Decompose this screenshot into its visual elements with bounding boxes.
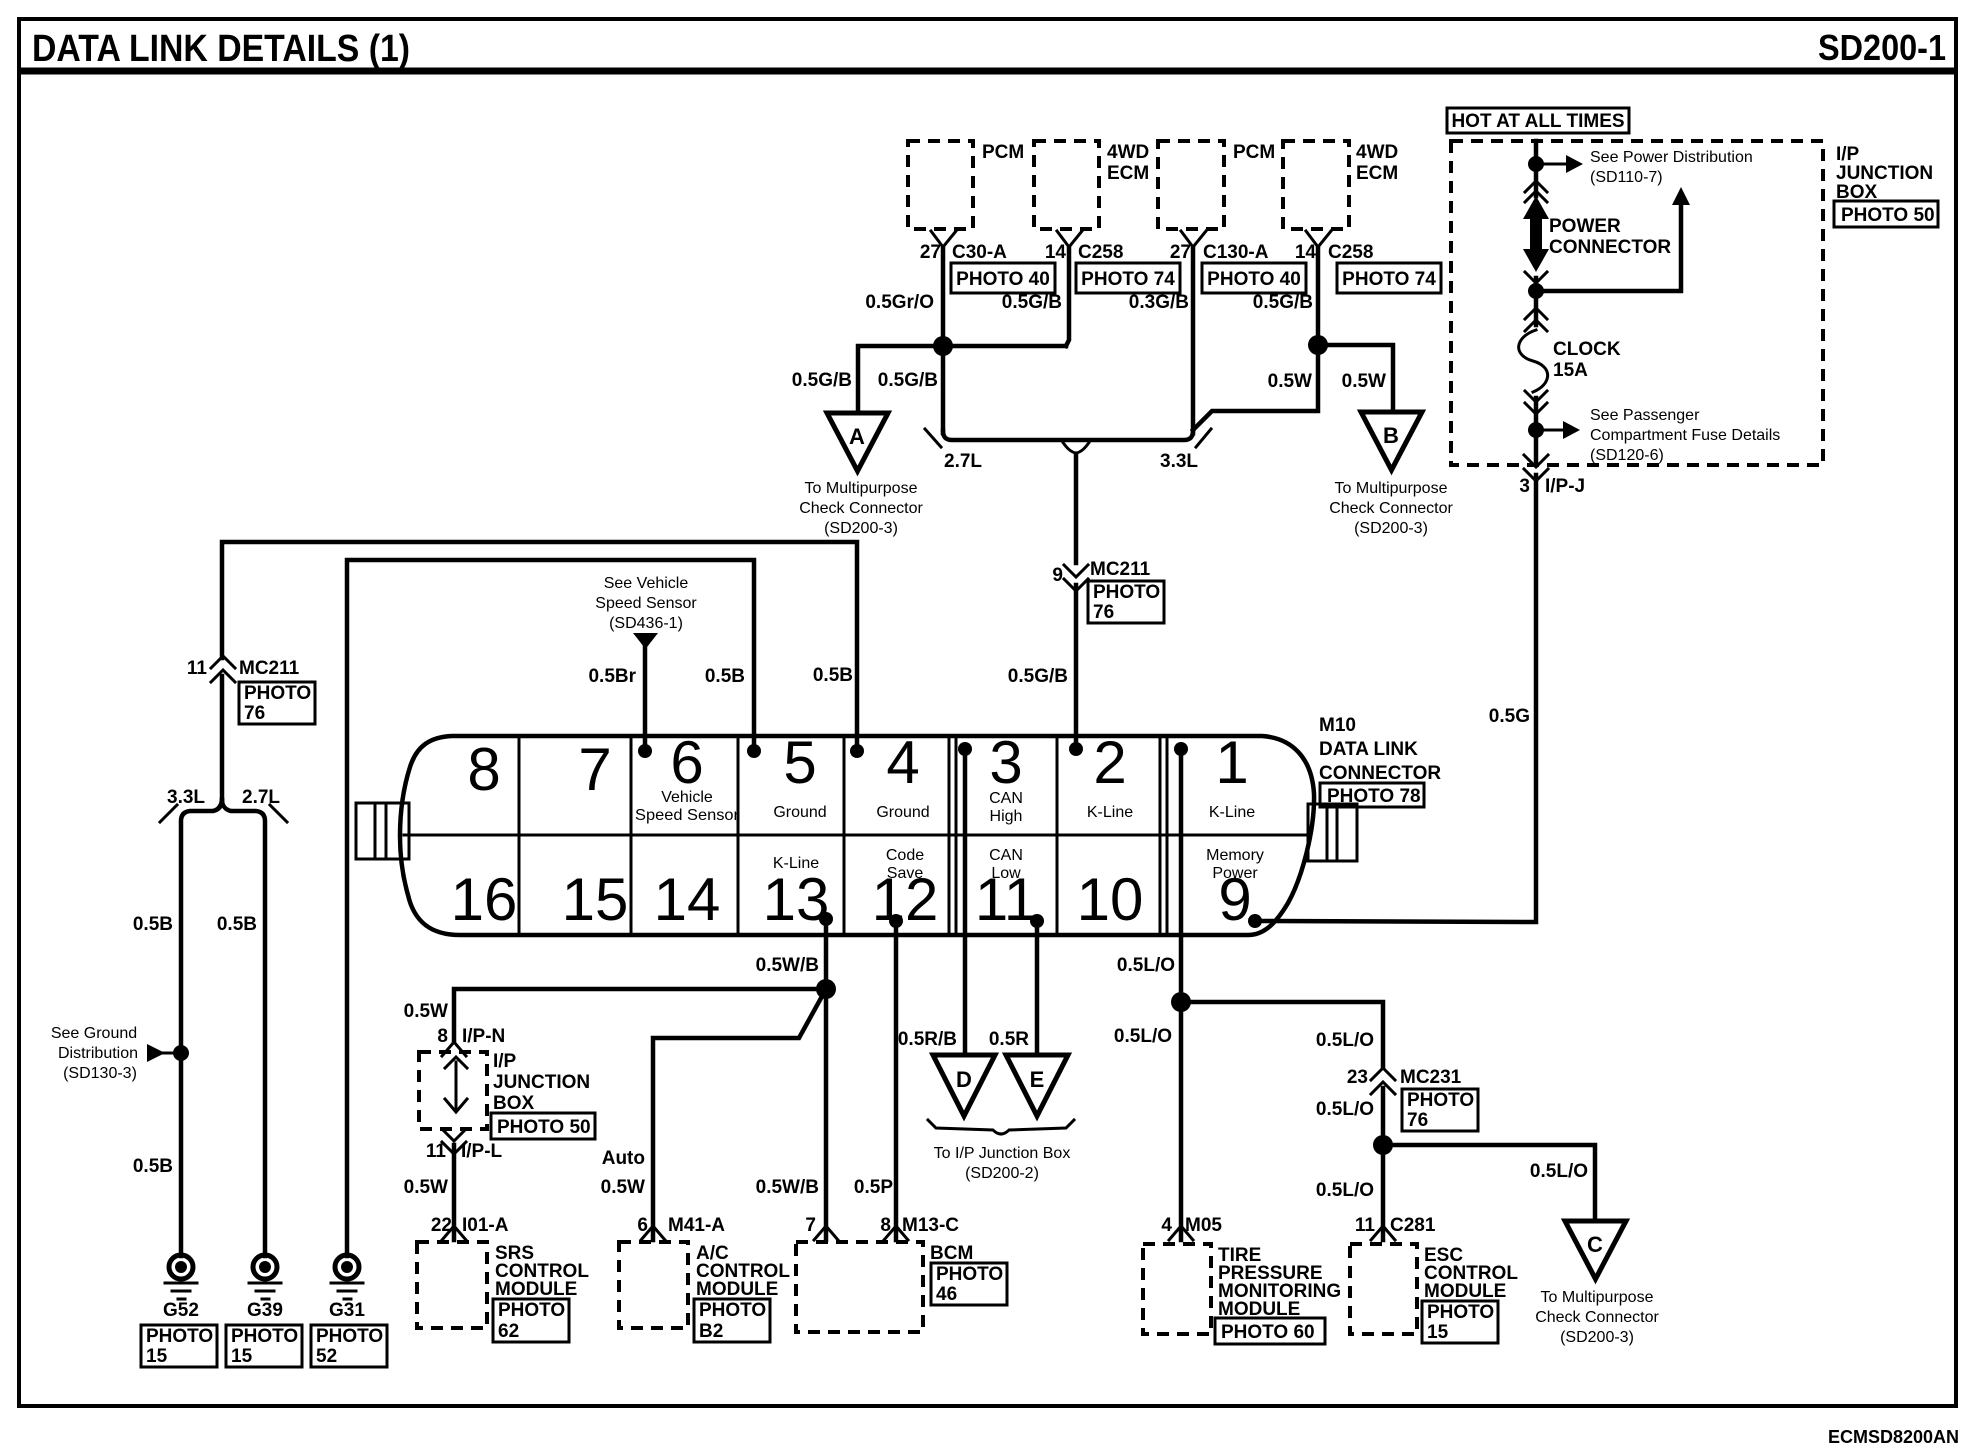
svg-text:8: 8 (437, 1026, 448, 1047)
svg-text:16: 16 (451, 866, 518, 933)
wire junction to C triangle (1383, 1145, 1595, 1221)
svg-text:4WD: 4WD (1107, 142, 1149, 163)
svg-text:0.3G/B: 0.3G/B (1129, 292, 1189, 313)
arrow down inside box (445, 1099, 467, 1112)
DLC left mounting tab (356, 803, 409, 859)
junction dot fuse feed (1528, 283, 1544, 299)
TOPMODULES (792, 141, 1454, 537)
svg-text:Vehicle: Vehicle (661, 789, 713, 806)
svg-text:46: 46 (936, 1284, 957, 1305)
svg-text:Compartment Fuse Details: Compartment Fuse Details (1590, 427, 1780, 444)
triangle C to multipurpose check connector (1565, 1221, 1626, 1279)
svg-text:(SD120-6): (SD120-6) (1590, 447, 1664, 464)
svg-text:0.5L/O: 0.5L/O (1114, 1026, 1172, 1047)
svg-text:0.5G/B: 0.5G/B (878, 370, 938, 391)
svg-text:3.3L: 3.3L (167, 787, 205, 808)
svg-text:B: B (1383, 423, 1399, 448)
svg-text:(SD110-7): (SD110-7) (1590, 169, 1663, 186)
connector C281 pin 11 fork (1371, 1226, 1395, 1240)
module tire pressure monitoring module dashed box (1143, 1244, 1211, 1334)
arrow see passenger compartment fuse details (1536, 429, 1563, 432)
pin dot 13 (819, 912, 833, 926)
junction dot power distribution (1528, 156, 1544, 172)
chevron below fuse (1525, 391, 1547, 414)
wire VSS to pin 6 (643, 647, 648, 750)
pin dot 4 (850, 744, 864, 758)
svg-text:52: 52 (316, 1346, 337, 1367)
power connector thick arrow (1523, 196, 1549, 272)
svg-text:I/P: I/P (1836, 144, 1860, 165)
wire junction to MC231 (1181, 1002, 1383, 1066)
svg-text:Speed Sensor: Speed Sensor (635, 807, 740, 824)
triangle E to I/P junction box (1006, 1055, 1068, 1116)
svg-text:0.5L/O: 0.5L/O (1530, 1161, 1588, 1182)
svg-text:11: 11 (975, 866, 1037, 933)
svg-text:6: 6 (637, 1215, 648, 1236)
module 4WD ECM (right) dashed box (1283, 141, 1349, 229)
module PCM (right) dashed box (1158, 141, 1224, 229)
fuse CLOCK 15A (1519, 330, 1548, 392)
pin dot 6 (638, 744, 652, 758)
svg-text:7: 7 (578, 736, 611, 803)
photo ref PHOTO 76 (1402, 1089, 1478, 1131)
svg-text:0.5W: 0.5W (1342, 371, 1386, 392)
triangle B to multipurpose check connector (1361, 412, 1422, 470)
wire MC231 down to junction (1381, 1088, 1386, 1240)
svg-text:I/P-N: I/P-N (462, 1026, 505, 1047)
svg-text:15: 15 (146, 1346, 168, 1367)
photo ref PHOTO B2 (694, 1299, 770, 1342)
svg-text:9: 9 (1052, 565, 1063, 586)
svg-text:PHOTO: PHOTO (146, 1326, 213, 1347)
wire junction to I/P-N (454, 989, 826, 1042)
svg-text:HOT AT ALL TIMES: HOT AT ALL TIMES (1451, 111, 1624, 132)
svg-text:G39: G39 (247, 1300, 283, 1321)
wire I/P-L to SRS (452, 1145, 457, 1240)
svg-text:See Ground: See Ground (51, 1025, 137, 1042)
arrow from speed sensor (633, 633, 658, 649)
ground G31 (335, 1255, 359, 1279)
connector fork C258 pin 14 (1057, 231, 1082, 247)
svg-text:MODULE: MODULE (495, 1279, 577, 1300)
svg-text:3: 3 (989, 729, 1022, 796)
svg-text:G31: G31 (329, 1300, 365, 1321)
connector fork pin 7 (814, 1226, 838, 1240)
svg-text:15: 15 (231, 1346, 253, 1367)
svg-text:15: 15 (562, 866, 629, 933)
svg-text:Check Connector: Check Connector (799, 500, 923, 517)
svg-text:Ground: Ground (876, 804, 929, 821)
svg-text:0.5B: 0.5B (133, 1156, 173, 1177)
svg-text:0.5Gr/O: 0.5Gr/O (865, 292, 934, 313)
connector M41-A pin 6 fork (641, 1226, 665, 1240)
photo ref PHOTO 76 (239, 682, 315, 724)
svg-text:76: 76 (1093, 602, 1114, 623)
svg-text:0.5G: 0.5G (1489, 706, 1530, 727)
svg-text:ECMSD8200AN: ECMSD8200AN (1828, 1427, 1959, 1447)
svg-text:To Multipurpose: To Multipurpose (1335, 480, 1448, 497)
photo ref PHOTO 62 (493, 1299, 569, 1342)
pin dot 2 (1069, 742, 1083, 756)
wire junction left to A drop (858, 346, 943, 413)
pin dot 9 (1248, 914, 1262, 928)
svg-text:0.5L/O: 0.5L/O (1316, 1180, 1374, 1201)
svg-text:ECM: ECM (1356, 163, 1398, 184)
svg-text:See Power Distribution: See Power Distribution (1590, 149, 1753, 166)
svg-text:CAN: CAN (989, 847, 1023, 864)
svg-text:Check Connector: Check Connector (1329, 500, 1453, 517)
title separator (19, 68, 1956, 75)
svg-text:0.5W: 0.5W (404, 1001, 448, 1022)
svg-text:14: 14 (1045, 242, 1067, 263)
svg-text:PHOTO 40: PHOTO 40 (956, 269, 1050, 290)
svg-text:(SD200-3): (SD200-3) (824, 520, 898, 537)
svg-text:PHOTO: PHOTO (1427, 1302, 1494, 1323)
svg-text:14: 14 (654, 866, 721, 933)
svg-text:E: E (1030, 1067, 1045, 1092)
svg-text:PHOTO 50: PHOTO 50 (497, 1117, 591, 1138)
svg-text:9: 9 (1218, 866, 1251, 933)
svg-text:PHOTO 78: PHOTO 78 (1327, 786, 1421, 807)
photo ref PHOTO 76 (1088, 581, 1164, 623)
svg-text:10: 10 (1077, 866, 1144, 933)
svg-text:C258: C258 (1078, 242, 1123, 263)
pin dot 5 (747, 744, 761, 758)
photo ref PHOTO 40 (951, 263, 1055, 293)
svg-text:0.5P: 0.5P (854, 1177, 893, 1198)
DLC mid divider (404, 834, 1307, 837)
svg-text:JUNCTION: JUNCTION (493, 1072, 590, 1093)
svg-text:(SD436-1): (SD436-1) (609, 615, 683, 632)
svg-text:I01-A: I01-A (462, 1215, 509, 1236)
photo ref PHOTO 15 (1422, 1301, 1498, 1343)
wire inside box (455, 1062, 458, 1110)
svg-text:Ground: Ground (773, 804, 826, 821)
wire merged K-line down to MC211 (1074, 455, 1079, 563)
junction first pair (933, 336, 953, 356)
svg-text:3: 3 (1519, 476, 1530, 497)
svg-text:POWER: POWER (1549, 216, 1621, 237)
BOTTOM (404, 749, 1660, 1346)
svg-text:K-Line: K-Line (1087, 804, 1133, 821)
svg-text:M05: M05 (1185, 1215, 1222, 1236)
svg-text:BCM: BCM (930, 1243, 973, 1264)
svg-text:CAN: CAN (989, 790, 1023, 807)
wire junction down-left to merge (1193, 345, 1318, 430)
junction second pair (1308, 335, 1328, 355)
svg-text:11: 11 (1355, 1215, 1376, 1236)
wire MC211 down to split (220, 676, 225, 800)
merge tick right (1196, 429, 1211, 447)
svg-text:76: 76 (244, 703, 265, 724)
connector M05 pin 4 fork (1169, 1226, 1193, 1240)
svg-text:14: 14 (1295, 242, 1317, 263)
svg-text:0.5W: 0.5W (601, 1177, 645, 1198)
svg-text:0.5R/B: 0.5R/B (898, 1029, 957, 1050)
svg-text:Memory: Memory (1206, 847, 1264, 864)
svg-text:Distribution: Distribution (58, 1045, 138, 1062)
MIDDLE (222, 455, 1164, 1256)
svg-text:PHOTO: PHOTO (1093, 582, 1160, 603)
svg-text:4: 4 (1161, 1215, 1172, 1236)
ground bus 2: pin 5 to G31 drop (347, 560, 754, 1256)
photo ref PHOTO 78 (1320, 783, 1424, 807)
svg-text:0.5W: 0.5W (404, 1177, 448, 1198)
svg-text:15: 15 (1427, 1322, 1449, 1343)
connector fork C130-A pin 27 (1181, 231, 1206, 247)
svg-text:0.5B: 0.5B (813, 665, 853, 686)
svg-text:MC231: MC231 (1400, 1067, 1462, 1088)
svg-text:C258: C258 (1328, 242, 1373, 263)
svg-text:PHOTO: PHOTO (498, 1300, 565, 1321)
svg-text:PHOTO: PHOTO (244, 683, 311, 704)
svg-text:C: C (1587, 1232, 1603, 1257)
svg-text:Speed Sensor: Speed Sensor (595, 595, 697, 612)
brace under D and E (928, 1120, 1074, 1134)
connector M10 data link connector outline (400, 736, 1314, 935)
HOT AT ALL TIMES banner (1447, 108, 1629, 133)
ground G52 (169, 1255, 193, 1279)
connector M13-C pin 8 fork (884, 1226, 908, 1240)
svg-text:11: 11 (187, 658, 208, 679)
junction dot fuse details (1528, 422, 1544, 438)
svg-text:2.7L: 2.7L (242, 787, 280, 808)
photo ref PHOTO 60 (1215, 1318, 1325, 1344)
junction dot ESC branch (1373, 1135, 1393, 1155)
junction dot K-line split (816, 979, 836, 999)
svg-text:C281: C281 (1390, 1215, 1436, 1236)
wire C258 14 down (1066, 247, 1069, 346)
svg-text:CONNECTOR: CONNECTOR (1549, 237, 1671, 258)
svg-text:CLOCK: CLOCK (1553, 339, 1621, 360)
module SRS control module dashed box (417, 1242, 487, 1328)
svg-text:6: 6 (670, 729, 703, 796)
wire junction to up arrow (1536, 205, 1681, 291)
svg-text:MODULE: MODULE (1424, 1281, 1506, 1302)
svg-text:To Multipurpose: To Multipurpose (805, 480, 918, 497)
svg-text:Code: Code (886, 847, 924, 864)
svg-text:0.5Br: 0.5Br (588, 666, 636, 687)
svg-text:MC211: MC211 (239, 658, 300, 679)
connector I/P-L pin 11 (442, 1129, 466, 1154)
svg-text:15A: 15A (1553, 360, 1588, 381)
chevron above fuse (1525, 308, 1547, 331)
ground bus 1: pin 4 to MC211 (11) (222, 542, 857, 750)
wire CAN High pin 3 to D (963, 749, 968, 1055)
svg-text:0.5L/O: 0.5L/O (1117, 955, 1175, 976)
svg-text:76: 76 (1407, 1110, 1428, 1131)
svg-text:ECM: ECM (1107, 163, 1149, 184)
connector I/P-N pin 8 (442, 1042, 466, 1056)
svg-text:11: 11 (426, 1141, 447, 1162)
svg-text:To Multipurpose: To Multipurpose (1541, 1289, 1654, 1306)
svg-text:See Vehicle: See Vehicle (604, 575, 689, 592)
svg-text:PHOTO 40: PHOTO 40 (1207, 269, 1301, 290)
svg-text:(SD200-3): (SD200-3) (1354, 520, 1428, 537)
svg-text:0.5L/O: 0.5L/O (1316, 1030, 1374, 1051)
svg-text:PHOTO: PHOTO (936, 1264, 1003, 1285)
I/P junction box (lower) dashed outline (419, 1052, 487, 1129)
svg-text:PHOTO 74: PHOTO 74 (1342, 269, 1436, 290)
svg-text:M41-A: M41-A (668, 1215, 725, 1236)
svg-text:8: 8 (467, 736, 500, 803)
svg-text:0.5W: 0.5W (1268, 371, 1312, 392)
svg-text:4WD: 4WD (1356, 142, 1398, 163)
photo ref PHOTO 74 (1337, 263, 1441, 293)
arrow see power distribution (1536, 163, 1566, 166)
svg-text:I/P: I/P (493, 1051, 517, 1072)
svg-text:BOX: BOX (493, 1093, 535, 1114)
wire MC211 to DLC pin 2 (1074, 585, 1079, 750)
ground G39 (253, 1255, 277, 1279)
svg-text:62: 62 (498, 1321, 519, 1342)
photo ref PHOTO 50 (1834, 201, 1938, 227)
svg-text:See Passenger: See Passenger (1590, 407, 1700, 424)
svg-text:(SD200-2): (SD200-2) (965, 1165, 1039, 1182)
svg-text:I/P-L: I/P-L (461, 1141, 503, 1162)
module PCM (left) dashed box (908, 141, 973, 229)
svg-text:(SD200-3): (SD200-3) (1560, 1329, 1634, 1346)
svg-text:PHOTO 60: PHOTO 60 (1221, 1322, 1315, 1343)
svg-text:0.5W/B: 0.5W/B (756, 1177, 819, 1198)
svg-text:PHOTO 74: PHOTO 74 (1081, 269, 1175, 290)
module A/C control module dashed box (619, 1242, 688, 1328)
svg-text:High: High (990, 808, 1023, 825)
DLC cell dividers (519, 736, 1167, 935)
wire merge bar 2.7L/3.3L (943, 431, 1193, 440)
module ESC control module dashed box (1350, 1244, 1417, 1334)
DLC (356, 715, 1441, 935)
svg-text:0.5B: 0.5B (705, 666, 745, 687)
svg-text:13: 13 (763, 866, 830, 933)
svg-text:MC211: MC211 (1090, 559, 1151, 580)
svg-text:12: 12 (872, 866, 939, 933)
wire fuse to junction (1534, 398, 1539, 462)
pin dot 11 (1030, 914, 1044, 928)
split tick left (160, 805, 177, 822)
module BCM dashed box (796, 1242, 923, 1332)
svg-text:0.5G/B: 0.5G/B (1253, 292, 1313, 313)
svg-text:PHOTO 50: PHOTO 50 (1841, 205, 1935, 226)
svg-text:PHOTO: PHOTO (316, 1326, 383, 1347)
merge tick left (925, 429, 941, 447)
connector MC211 pin 11 chevrons (211, 656, 235, 682)
svg-text:27: 27 (1170, 242, 1191, 263)
svg-text:G52: G52 (163, 1300, 199, 1321)
connector MC231 pin 23 chevrons (1371, 1068, 1395, 1094)
wire pin 1 down to M05 (1179, 749, 1184, 1240)
chevron above power connector (1525, 181, 1547, 202)
svg-text:B2: B2 (699, 1321, 723, 1342)
connector fork C30-A pin 27 (931, 231, 956, 247)
connector I01-A pin 22 fork (442, 1226, 466, 1240)
merge brace to single wire (1062, 441, 1090, 453)
pin dot 12 (889, 914, 903, 928)
chevron into box (445, 1057, 467, 1068)
svg-text:C30-A: C30-A (952, 242, 1007, 263)
svg-text:PCM: PCM (982, 142, 1024, 163)
junction dot ground distribution (173, 1045, 189, 1061)
wire first pair down to merge (941, 346, 946, 433)
DLC right mounting tab (1308, 804, 1357, 861)
wire junction to C258 (943, 344, 1066, 349)
svg-text:DATA LINK: DATA LINK (1319, 739, 1418, 760)
wire split 3.3L branch (181, 800, 222, 1256)
photo ref PHOTO 74 (1076, 263, 1180, 293)
connector MC211 pin 9 chevrons (1064, 565, 1088, 591)
wire pin 13 down to junction (824, 919, 829, 989)
svg-text:0.5B: 0.5B (217, 914, 257, 935)
svg-text:2.7L: 2.7L (944, 451, 982, 472)
svg-text:0.5G/B: 0.5G/B (792, 370, 852, 391)
svg-text:To I/P Junction Box: To I/P Junction Box (934, 1145, 1071, 1162)
svg-text:0.5R: 0.5R (989, 1029, 1029, 1050)
wire C30-A 27 down (941, 247, 946, 346)
svg-text:CONNECTOR: CONNECTOR (1319, 763, 1441, 784)
svg-text:I/P-J: I/P-J (1545, 476, 1585, 497)
svg-text:27: 27 (920, 242, 941, 263)
svg-text:3.3L: 3.3L (1160, 451, 1198, 472)
split tick right (270, 805, 287, 822)
wire battery feed down (1534, 141, 1539, 196)
svg-text:0.5W/B: 0.5W/B (756, 955, 819, 976)
svg-text:JUNCTION: JUNCTION (1836, 163, 1933, 184)
triangle A to multipurpose check connector (827, 413, 888, 471)
connector I/P-J pin 3 chevrons (1524, 455, 1548, 481)
wire junction diagonal to A/C branch (653, 989, 826, 1240)
wire split 2.7L branch (222, 800, 265, 1256)
svg-text:Auto: Auto (602, 1148, 645, 1169)
svg-text:22: 22 (431, 1215, 452, 1236)
svg-text:2: 2 (1093, 729, 1126, 796)
connector fork C258 pin 14 (1306, 231, 1331, 247)
svg-text:M13-C: M13-C (902, 1215, 959, 1236)
photo ref PHOTO 46 (931, 1263, 1007, 1305)
LEFT (51, 656, 387, 1367)
wire CAN Low pin 11 to E (1035, 921, 1040, 1055)
wire pin 12 down to BCM pin 8 (894, 921, 899, 1240)
pin dot 3 (958, 742, 972, 756)
svg-text:7: 7 (805, 1215, 816, 1236)
svg-text:0.5L/O: 0.5L/O (1316, 1099, 1374, 1120)
svg-text:PHOTO: PHOTO (1407, 1090, 1474, 1111)
photo ref PHOTO 50 (491, 1113, 595, 1139)
svg-text:(SD130-3): (SD130-3) (63, 1065, 137, 1082)
photo ref PHOTO 40 (1202, 263, 1306, 293)
wire 0.5G down right side to pin 9 (1255, 475, 1536, 922)
svg-text:0.5G/B: 0.5G/B (1002, 292, 1062, 313)
svg-text:1: 1 (1215, 729, 1248, 796)
triangle D to I/P junction box (933, 1055, 995, 1116)
svg-text:Check Connector: Check Connector (1535, 1309, 1659, 1326)
svg-text:8: 8 (880, 1215, 891, 1236)
svg-text:A: A (849, 424, 865, 449)
svg-text:PHOTO: PHOTO (231, 1326, 298, 1347)
svg-text:SD200-1: SD200-1 (1818, 27, 1946, 68)
pin dot 1 (1174, 742, 1188, 756)
svg-text:0.5B: 0.5B (133, 914, 173, 935)
wire C258(2) 14 down (1316, 247, 1321, 345)
svg-text:C130-A: C130-A (1203, 242, 1269, 263)
wire C130-A 27 down (1191, 247, 1196, 433)
wire junction down to BCM pin 7 (824, 989, 829, 1240)
svg-text:DATA LINK DETAILS (1): DATA LINK DETAILS (1) (32, 28, 410, 70)
wire to junction (1534, 278, 1539, 325)
svg-text:K-Line: K-Line (1209, 804, 1255, 821)
svg-text:0.5G/B: 0.5G/B (1008, 666, 1068, 687)
svg-text:5: 5 (783, 729, 816, 796)
svg-text:PCM: PCM (1233, 142, 1275, 163)
